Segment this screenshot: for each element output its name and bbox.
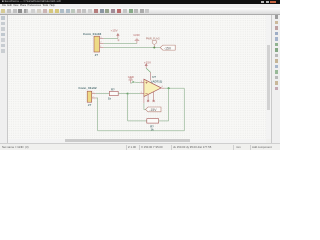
h scrollbar [8, 139, 266, 143]
status bar [0, 143, 280, 151]
op-amp offset null pin 5 [153, 92, 155, 101]
junction at output node [168, 87, 170, 89]
close button [270, 1, 276, 3]
svg-text:+15V: +15V [111, 28, 118, 32]
wire J2 pin2 down [96, 98, 98, 131]
wire GND to op-amp non-inverting input [131, 82, 141, 83]
wire J1 pin3 to +15V [104, 38, 118, 40]
ground symbol GND (top, inverted) [135, 38, 140, 43]
wire right side up to output [183, 88, 185, 131]
wire bottom run [98, 130, 185, 132]
resistor R2 body [147, 119, 159, 123]
svg-text:1k: 1k [108, 96, 111, 100]
toolbar [0, 8, 280, 16]
ground symbol GND (at + input) [128, 78, 133, 84]
J2 pin 2 [92, 97, 96, 99]
canvas [8, 15, 266, 139]
wire V- pin to -15V label [144, 103, 146, 109]
wire +15V to V+ pin (diagonal) [146, 68, 150, 72]
connector J1 body [94, 36, 100, 52]
op-amp offset null pin 1 [147, 95, 149, 101]
svg-text:U?: U? [152, 75, 156, 79]
op-amp V- pin 4 [143, 96, 145, 103]
svg-text:+15V: +15V [144, 61, 151, 65]
op-amp U? non-inverting input pin 3 [140, 82, 144, 84]
pin mark under +15V [117, 39, 119, 41]
svg-text:GND: GND [133, 33, 139, 37]
svg-text:(AD711): (AD711) [151, 79, 162, 83]
svg-text:GND: GND [128, 75, 134, 79]
svg-text:-15V: -15V [164, 46, 172, 50]
right toolbar [271, 15, 281, 143]
wire feedback up to output [168, 88, 170, 121]
junction dot at GND corner [132, 81, 134, 83]
schematic svg [0, 0, 280, 150]
svg-text:Conn_01x03: Conn_01x03 [83, 32, 102, 36]
svg-text:R?: R? [111, 88, 115, 92]
wire J2 pin1 to R1 [96, 93, 110, 95]
op-amp V+ pin 7 [150, 72, 152, 80]
no-connect X on pin 1 [147, 100, 149, 102]
wire op-amp output [165, 87, 185, 89]
op-amp U? inverting input pin 2 [140, 93, 144, 95]
resistor R1 body [109, 91, 118, 95]
power symbol +15V (op-amp V+) [145, 64, 147, 69]
power symbol +15V (top) [117, 34, 119, 39]
left toolbar [0, 15, 8, 143]
op-amp minus mark [145, 93, 147, 95]
global label -15V (op-amp V-) [146, 107, 162, 112]
wire feedback vertical from inverting node [127, 94, 129, 121]
op-amp plus mark [145, 82, 147, 84]
power flag PWR_FLAG [152, 41, 156, 48]
connector J2 body [87, 91, 92, 102]
no-connect X on pin 5 [153, 100, 155, 102]
wire feedback to R2 [128, 120, 147, 122]
global label -15V (top right) [160, 45, 175, 50]
J1 pin 1 [100, 47, 104, 49]
op-amp U1 triangle body [144, 79, 161, 96]
svg-text:J?: J? [88, 103, 92, 107]
menu bar [0, 4, 280, 9]
junction at inverting input node [127, 93, 129, 95]
v scrollbar [266, 15, 272, 139]
wire R2 to output vertical [159, 120, 169, 122]
wire J1 pin1 to -15V label [104, 47, 161, 49]
wire junction to op-amp inverting input [128, 93, 141, 95]
op-amp output pin 6 [161, 87, 164, 89]
wire R1 to junction [118, 93, 127, 95]
svg-text:PWR_FLAG: PWR_FLAG [146, 38, 160, 41]
svg-text:Conn_01x02: Conn_01x02 [78, 86, 97, 90]
svg-text:-15V: -15V [149, 108, 157, 112]
J2 pin 1 [92, 93, 96, 95]
J1 pin 2 [100, 42, 104, 44]
J1 pin 3 [100, 38, 104, 40]
title bar [0, 0, 280, 4]
junction on -15V wire [153, 47, 155, 49]
svg-text:J?: J? [95, 53, 99, 57]
wire J1 pin2 to GND [104, 42, 137, 44]
